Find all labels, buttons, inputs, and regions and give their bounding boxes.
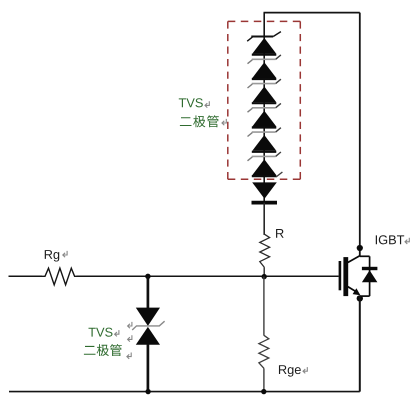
label IGBT [376, 235, 404, 244]
label Rge [279, 365, 301, 376]
wire: Rge to bottom rail [263, 368, 265, 391]
TVS diode D4 [248, 103, 281, 126]
return mark after upper 二极管 [222, 119, 226, 125]
TVS diode D5 [248, 128, 281, 151]
wire: emitter to bottom rail [359, 296, 361, 392]
stray return mark 1 (beside TVS) [128, 322, 132, 328]
collector node dot [357, 245, 363, 251]
return mark after IGBT [405, 238, 409, 244]
freewheel diode branch right wire [369, 256, 371, 296]
bidirectional TVS diode [132, 308, 164, 345]
node dot at R branch [262, 274, 267, 279]
body bar [343, 257, 348, 296]
wire: main horizontal gate rail [77, 275, 339, 277]
freewheel diode branch top wire [360, 255, 370, 257]
stray return mark 3 (after lower 二极管) [127, 353, 131, 359]
wire: bottom rail [9, 391, 360, 393]
wire: R node down to Rge [263, 277, 265, 336]
return mark after upper TVS [205, 101, 209, 107]
TVS diode D1 [247, 32, 281, 54]
gate bar [339, 261, 342, 290]
TVS diode D2 [248, 55, 281, 78]
emitter lead with arrow [348, 287, 356, 292]
diode D7 (series diode, cathode down) [252, 182, 278, 202]
return mark after Rge [303, 367, 307, 373]
node dot at TVS branch [145, 274, 150, 279]
wire: rail down to TVS [147, 276, 150, 308]
resistor R [260, 234, 270, 267]
TVS diode D3 [248, 79, 281, 102]
TVS diode D6 [248, 152, 281, 175]
IGBT U1 [340, 245, 378, 302]
label R [276, 229, 284, 238]
return mark after Rg [63, 251, 67, 257]
collector lead [348, 256, 360, 263]
node dot Rge / bottom rail [261, 389, 266, 394]
wire: TVS to bottom rail [147, 344, 150, 392]
label 二极管 (lower, green glyph outlines) [84, 344, 122, 356]
dashed box around TVS chain [228, 21, 300, 179]
wire: diode chain vertical [263, 13, 265, 235]
wire: R to gate rail [263, 267, 265, 276]
node dot TVS / bottom rail [145, 389, 150, 394]
freewheel diode cathode bar [362, 267, 378, 270]
label TVS (upper, green) [179, 98, 203, 107]
wire: top horizontal [264, 12, 360, 14]
wire: right vertical (top rail to IGBT collector) [359, 13, 361, 257]
stray return mark 2 (beside TVS) [128, 335, 132, 341]
label TVS (lower, green) [88, 328, 112, 337]
wire: D7 to resistor R [263, 203, 265, 235]
resistor Rge [259, 335, 269, 368]
label 二极管 (upper, green glyph outlines) [180, 115, 219, 127]
wire: gate rail left of Rg [9, 275, 43, 277]
label Rg [45, 250, 59, 261]
junction bar below D6 [252, 172, 283, 177]
emitter node dot [357, 295, 363, 301]
freewheel diode triangle [362, 270, 378, 282]
freewheel diode branch bottom wire [360, 295, 370, 297]
return mark after lower TVS [115, 330, 119, 336]
resistor Rg [42, 268, 78, 285]
